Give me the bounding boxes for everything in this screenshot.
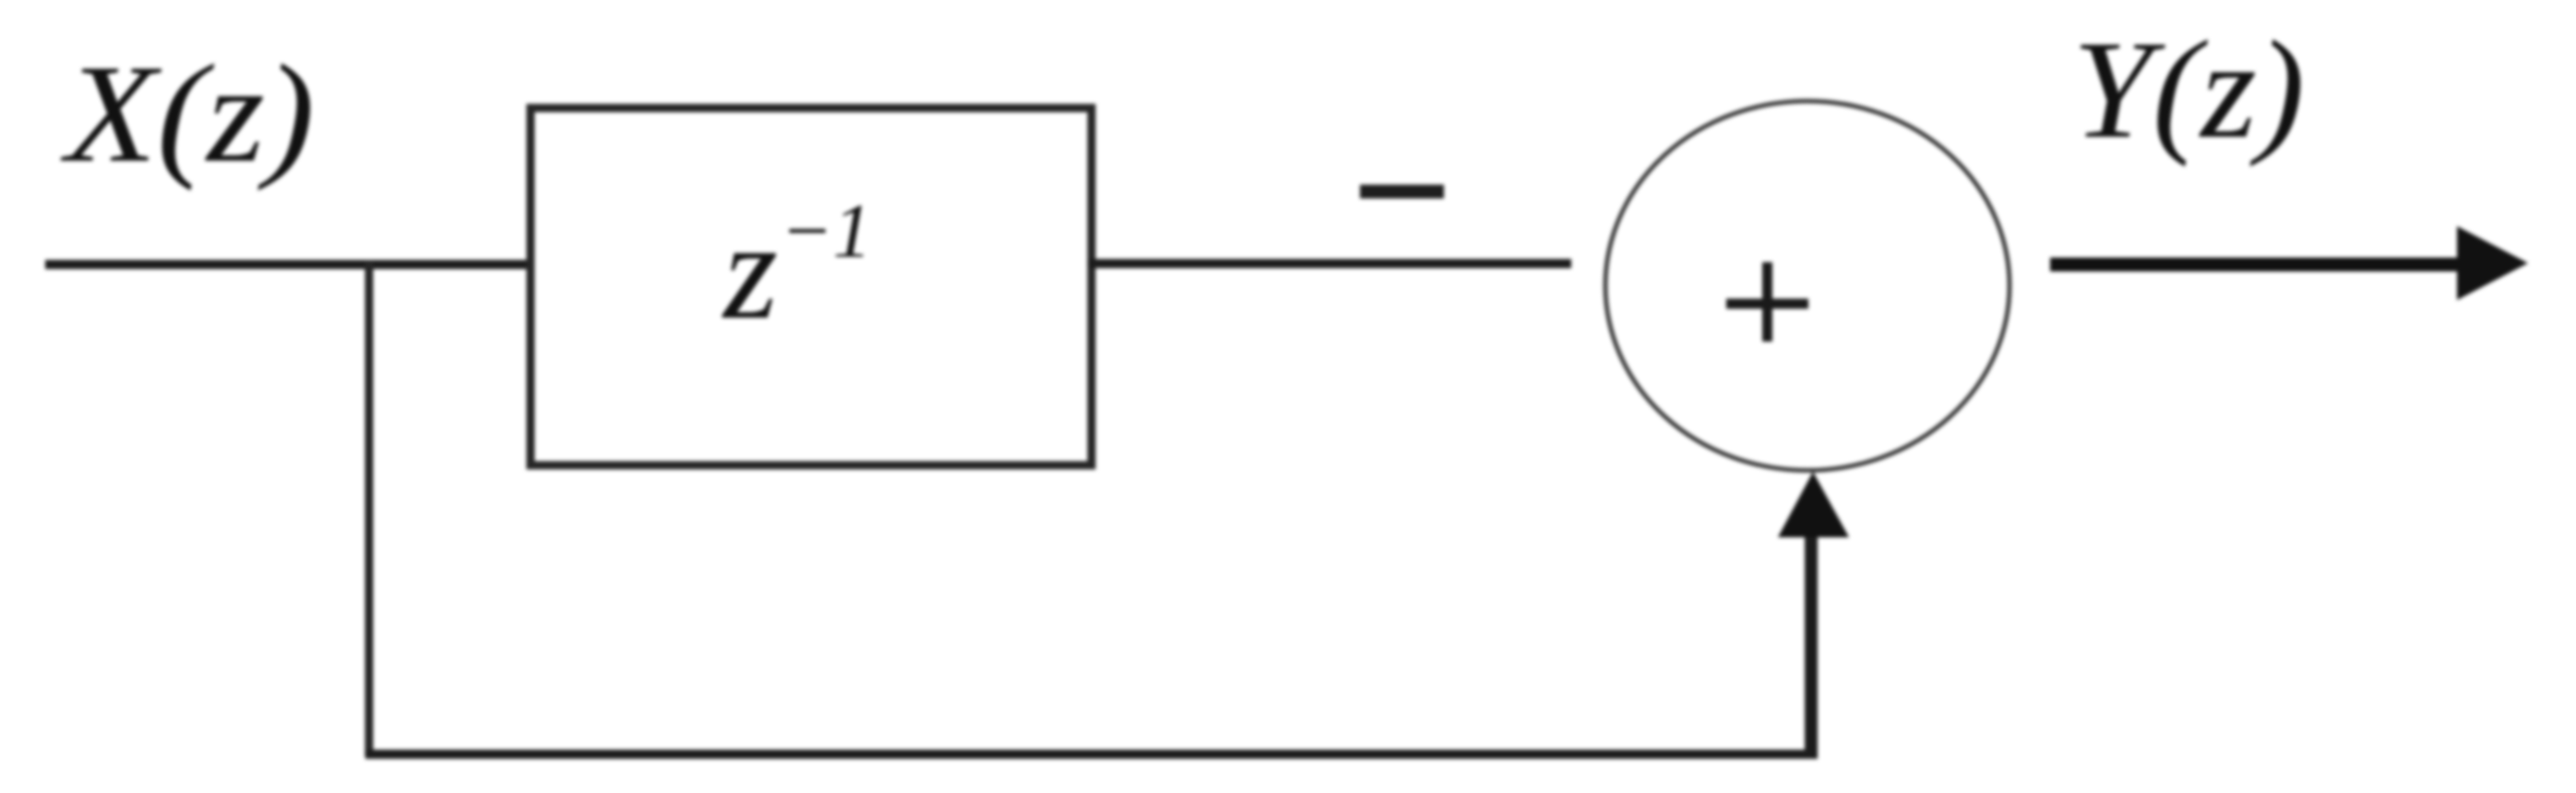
wire delay block to summer [1088, 259, 1571, 269]
arrowhead output Y(z) [2457, 226, 2528, 300]
plus sign inside summer (vertical bar) [1762, 262, 1772, 342]
minus sign label above wire [1360, 185, 1444, 198]
wire feedback bottom horizontal [365, 750, 1818, 759]
wire feedback vertical (right) into summer [1805, 534, 1818, 759]
plus sign inside summer (horizontal bar) [1726, 299, 1808, 309]
wire output from summer [2050, 258, 2465, 271]
svg-text:z: z [722, 193, 778, 348]
summing junction circle [1605, 102, 2010, 471]
svg-text:X(z): X(z) [60, 36, 315, 191]
delay block z^-1 rectangle [531, 108, 1091, 465]
arrowhead feedback into summer bottom [1778, 472, 1849, 537]
svg-text:Y(z): Y(z) [2072, 12, 2305, 167]
wire input X(z) to delay block [45, 260, 534, 270]
svg-text:−1: −1 [781, 188, 872, 274]
wire feedback tap vertical (left) [365, 261, 374, 757]
